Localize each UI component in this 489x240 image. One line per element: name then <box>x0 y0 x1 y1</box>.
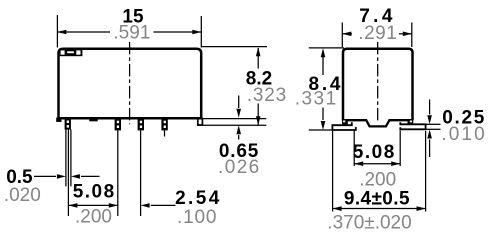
svg-text:.020: .020 <box>4 185 41 206</box>
svg-text:.291: .291 <box>358 23 397 44</box>
svg-text:5.08: 5.08 <box>73 182 116 203</box>
svg-text:.010: .010 <box>441 124 486 145</box>
svg-text:.331: .331 <box>295 89 338 110</box>
svg-text:.100: .100 <box>177 207 217 228</box>
svg-text:.200: .200 <box>75 206 112 227</box>
svg-text:5.08: 5.08 <box>353 142 396 163</box>
svg-text:.591: .591 <box>113 23 150 44</box>
svg-text:.026: .026 <box>218 157 261 178</box>
svg-text:9.4±0.5: 9.4±0.5 <box>344 189 410 210</box>
svg-text:.370±.020: .370±.020 <box>327 212 411 233</box>
svg-text:.200: .200 <box>359 170 396 191</box>
svg-text:.323: .323 <box>247 85 287 106</box>
